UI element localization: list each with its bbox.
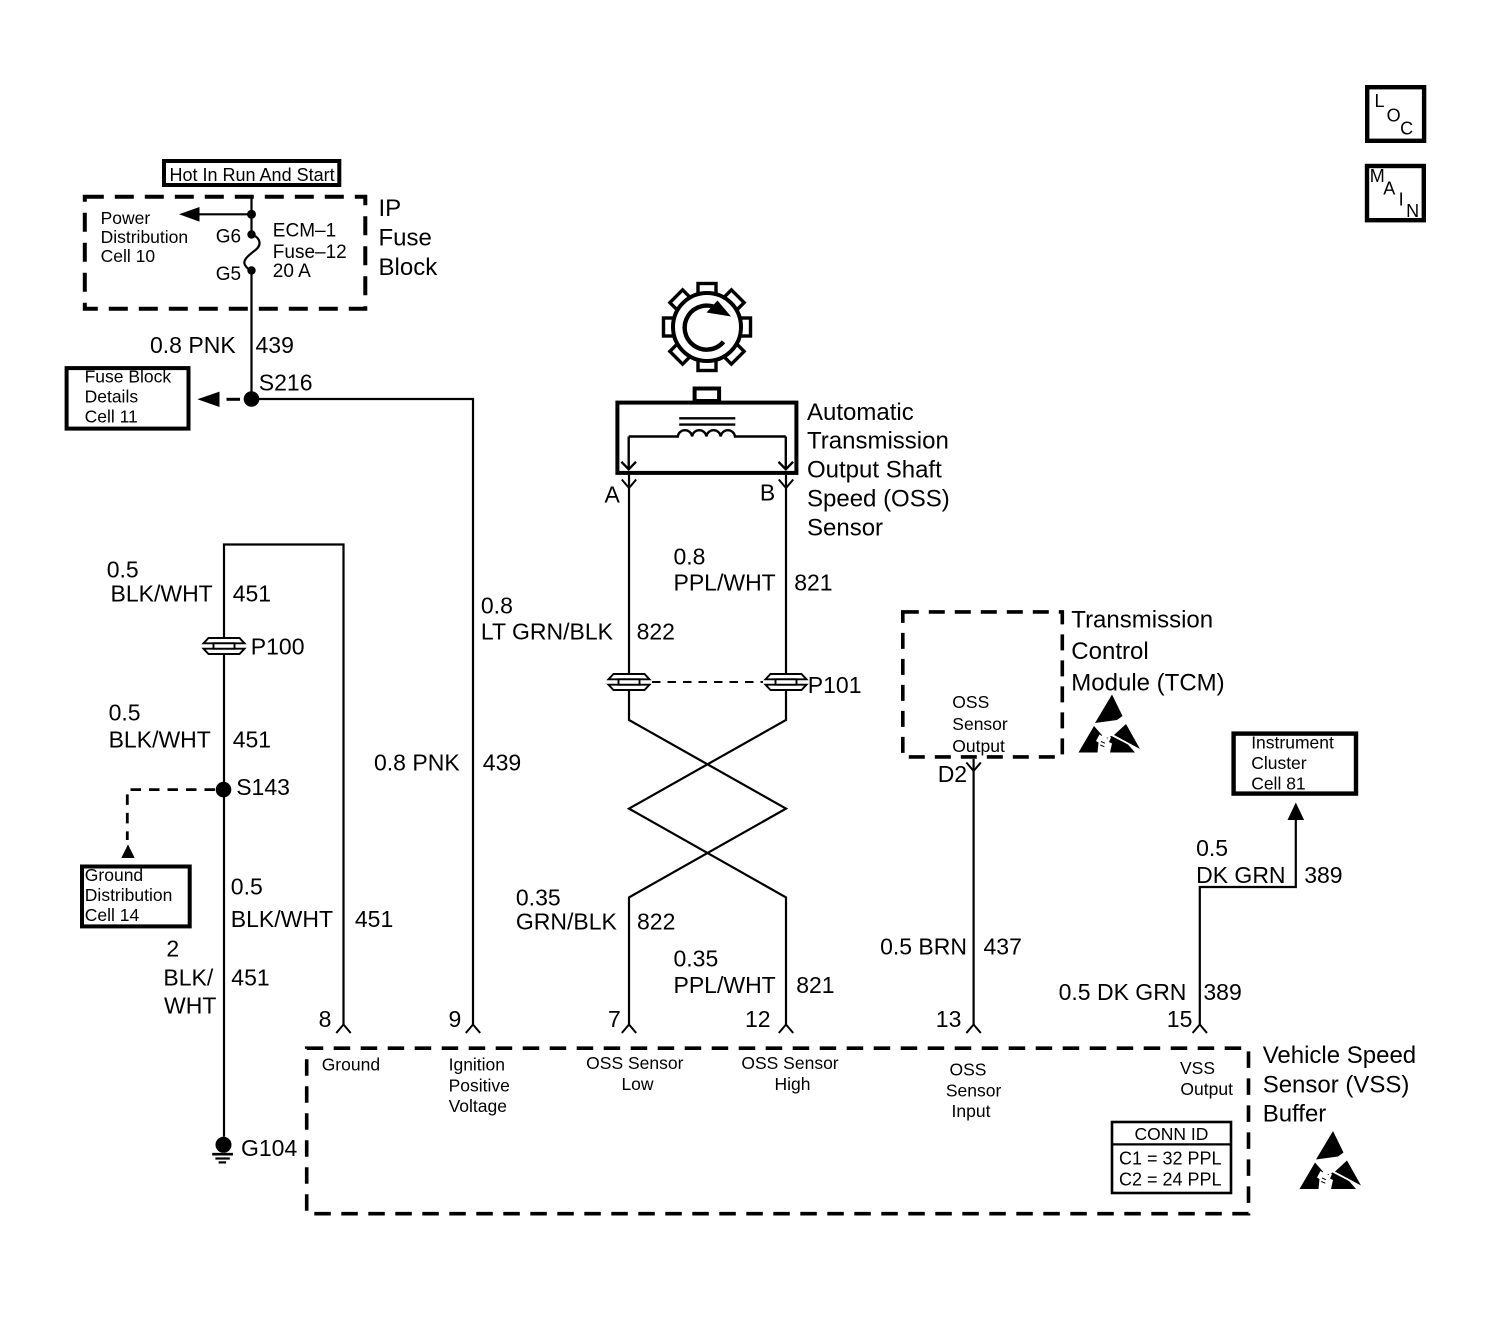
ground G104 symbol [212,1154,233,1162]
svg-text:0.5: 0.5 [1196,835,1228,861]
sensor internal lead A with arrow [621,437,636,470]
label: 0.5 DK GRN 389 (upper) [1196,835,1342,888]
svg-text:0.5: 0.5 [109,700,141,726]
label: 0.35 PPL/WHT 821 [674,946,835,999]
pin 9 chevron [466,1025,480,1034]
OSS sensor box [617,403,796,473]
reference label: Power Distribution Cell 10 [101,208,189,266]
svg-text:Details: Details [85,387,139,407]
svg-text:OSS Sensor: OSS Sensor [741,1053,838,1073]
arrow up into Instrument Cluster [1288,803,1305,821]
dashed link between P101 halves [652,681,763,683]
svg-text:9: 9 [449,1006,462,1032]
svg-text:O: O [1387,106,1401,126]
IP Fuse Block dashed box [85,197,366,309]
svg-text:C1 = 32 PPL: C1 = 32 PPL [1119,1149,1222,1169]
svg-text:Cluster: Cluster [1251,753,1307,773]
twisted pair: wire B P101 to pin 12 (0.35 PPL/WHT 821) [629,690,786,1025]
svg-text:821: 821 [794,570,832,596]
OSS sensor gear icon [664,284,751,371]
svg-text:Distribution: Distribution [101,227,189,247]
svg-text:G104: G104 [241,1135,297,1161]
fuse ECM-1 element [244,235,259,271]
wire: pin 15 up to Instrument Cluster (0.5 DK GRN 389) [1200,818,1296,1025]
reference box: Hot In Run And Start [164,161,339,185]
LOC corner box [1367,87,1424,141]
svg-text:Cell 14: Cell 14 [85,905,140,925]
label: 2 BLK/WHT 451 (to G104) [163,936,269,1019]
svg-text:A: A [1383,179,1395,199]
pin A chevron [622,480,636,489]
OSS sensor mounting stem [695,389,720,402]
svg-text:PPL/WHT: PPL/WHT [674,972,776,998]
pin function label: Ignition Positive Voltage [449,1055,510,1117]
pin 8 chevron [336,1025,350,1034]
svg-text:Voltage: Voltage [449,1096,507,1116]
svg-text:Power: Power [101,208,151,228]
pin function label: OSS Sensor Input [946,1060,1002,1122]
pin 13 chevron [966,1025,980,1034]
svg-text:Output Shaft: Output Shaft [807,457,942,484]
svg-text:C2 = 24 PPL: C2 = 24 PPL [1119,1170,1222,1190]
svg-text:Buffer: Buffer [1263,1101,1327,1128]
svg-text:L: L [1375,91,1385,111]
svg-text:Cell 81: Cell 81 [1251,774,1305,794]
svg-text:Ground: Ground [85,865,143,885]
svg-text:8: 8 [319,1006,332,1032]
label: OSS Sensor Output [952,692,1008,756]
svg-text:0.35: 0.35 [674,946,719,972]
svg-text:0.8 PNK: 0.8 PNK [374,750,460,776]
svg-text:439: 439 [256,332,294,358]
svg-text:Distribution: Distribution [85,885,173,905]
svg-text:BLK/WHT: BLK/WHT [231,906,333,932]
svg-text:BLK/WHT: BLK/WHT [109,727,211,753]
svg-text:7: 7 [608,1006,621,1032]
svg-text:PPL/WHT: PPL/WHT [674,570,776,596]
svg-text:S216: S216 [259,370,313,396]
svg-text:822: 822 [637,909,675,935]
svg-text:821: 821 [796,972,834,998]
svg-text:Low: Low [621,1074,653,1094]
svg-text:DK GRN: DK GRN [1196,862,1285,888]
svg-text:A: A [605,482,621,508]
svg-text:13: 13 [936,1006,962,1032]
svg-text:0.35: 0.35 [516,885,561,911]
svg-text:Ground: Ground [322,1055,380,1075]
svg-text:Cell 11: Cell 11 [85,407,138,427]
svg-text:CONN ID: CONN ID [1135,1124,1209,1144]
svg-text:Ignition: Ignition [449,1055,505,1075]
wire: branch to Power Distribution [199,213,252,215]
svg-text:12: 12 [745,1006,771,1032]
svg-text:439: 439 [483,750,521,776]
svg-text:Fuse: Fuse [379,225,432,252]
svg-text:VSS: VSS [1180,1058,1215,1078]
svg-text:C: C [1400,119,1413,139]
svg-text:451: 451 [231,965,269,991]
svg-text:Instrument: Instrument [1251,733,1334,753]
arrow into Power Distribution [179,207,200,222]
ESD sensitivity symbol (TCM) [1079,695,1141,753]
label: 0.5 BLK/WHT 451 (pin 8 run) [231,874,393,933]
pin 7 chevron [622,1025,636,1034]
svg-text:20 A: 20 A [273,261,311,282]
inline connector P101 (left half) [609,674,650,690]
reference box: Ground Distribution Cell 14 [82,865,190,926]
svg-text:GRN/BLK: GRN/BLK [516,909,618,935]
svg-text:389: 389 [1304,862,1342,888]
svg-text:BLK/: BLK/ [163,965,213,991]
wire: feed from Hot In Run into fuse block [250,197,252,232]
TCM dashed box [903,612,1063,757]
reference box: Fuse Block Details Cell 11 [67,367,189,429]
pin function label: VSS Output [1180,1058,1233,1099]
MAIN corner box [1367,166,1424,221]
wire: ground run pin 8 up over and down to G104 (BLK/WHT 451) [224,545,344,1137]
svg-text:LT GRN/BLK: LT GRN/BLK [481,619,614,645]
svg-text:Positive: Positive [449,1075,510,1095]
fuse ECM-1 terminal G5 [247,266,255,274]
svg-text:D2: D2 [938,761,967,787]
svg-text:0.8: 0.8 [481,593,513,619]
svg-text:ECM–1: ECM–1 [273,221,336,242]
svg-text:Fuse–12: Fuse–12 [273,242,347,263]
svg-text:0.5: 0.5 [107,557,139,583]
sensor internal lead B with arrow [779,437,794,470]
svg-text:Sensor: Sensor [946,1080,1002,1100]
svg-text:B: B [760,480,775,506]
svg-text:S143: S143 [236,774,290,800]
svg-text:Sensor (VSS): Sensor (VSS) [1263,1072,1410,1099]
VSS buffer dashed box [307,1048,1249,1214]
svg-text:15: 15 [1167,1006,1193,1032]
wire: S216 right then down to pin 9 (0.8 PNK 439) [252,399,474,1025]
svg-text:0.5 DK GRN: 0.5 DK GRN [1059,979,1187,1005]
wire B: sensor pin B to P101 (0.8 PPL/WHT 821) [785,475,787,674]
svg-text:Module (TCM): Module (TCM) [1071,669,1224,696]
svg-text:Output: Output [1180,1079,1233,1099]
CONN ID table box [1112,1122,1231,1193]
svg-text:OSS: OSS [950,1060,987,1080]
label: 0.5 BLK/WHT 451 (below P100) [109,700,271,753]
svg-text:0.8: 0.8 [674,544,706,570]
label: 0.5 DK GRN 389 (lower) [1059,979,1242,1005]
wire: D2 to pin 13 (0.5 BRN 437) [972,759,974,1025]
label: 0.8 PPL/WHT 821 [674,544,833,596]
label: Vehicle Speed Sensor (VSS) Buffer [1263,1042,1416,1128]
svg-text:OSS Sensor: OSS Sensor [586,1053,683,1073]
svg-text:WHT: WHT [164,993,216,1019]
svg-text:451: 451 [233,727,271,753]
ground G104 terminal dot [216,1137,232,1153]
pin B chevron [779,480,793,489]
label: 0.35 GRN/BLK 822 [516,885,675,935]
svg-text:Cell 10: Cell 10 [101,246,156,266]
fuse ECM-1 terminal G6 [247,230,255,238]
splice S143 [216,782,232,798]
svg-text:Input: Input [952,1101,991,1121]
svg-text:451: 451 [355,906,393,932]
svg-text:P100: P100 [251,634,305,660]
svg-text:I: I [1399,190,1404,210]
svg-text:BLK/WHT: BLK/WHT [111,581,213,607]
pin 15 chevron [1193,1025,1207,1034]
wire A: sensor pin A to P101 (0.8 LT GRN/BLK 822) [628,475,630,674]
svg-text:G5: G5 [216,264,241,285]
label: ECM-1 Fuse-12 20 A [273,221,347,282]
svg-text:2: 2 [166,936,179,962]
svg-text:Sensor: Sensor [807,515,883,542]
pin 12 chevron [779,1025,793,1034]
inline connector P100 [204,638,245,654]
sensor pickup coil [629,430,786,436]
svg-text:OSS: OSS [952,692,989,712]
junction dot above fuse [247,210,256,219]
svg-text:Sensor: Sensor [952,714,1008,734]
twisted pair: wire A P101 to pin 7 (0.35 GRN/BLK 822) [629,690,786,1025]
label: IP Fuse Block [379,195,439,281]
reference box: Instrument Cluster Cell 81 [1234,733,1356,794]
svg-text:822: 822 [637,619,675,645]
label: Transmission Control Module (TCM) [1071,607,1224,697]
dashed reference line S143 to Ground Distribution [127,790,215,840]
svg-text:389: 389 [1203,979,1241,1005]
wire: 0.8 PNK 439 fuse output down to S216 [250,271,252,400]
svg-text:Vehicle Speed: Vehicle Speed [1263,1042,1416,1069]
label: 0.8 LT GRN/BLK 822 [481,593,675,645]
svg-text:G6: G6 [216,226,241,247]
inline connector P101 (right half) [766,674,807,690]
label: 0.5 BLK/WHT 451 (above P100) [107,557,271,607]
svg-text:0.5: 0.5 [231,874,263,900]
ESD sensitivity symbol (VSS buffer) [1300,1131,1362,1189]
svg-text:P101: P101 [808,672,862,698]
svg-text:N: N [1406,201,1419,221]
svg-text:Transmission: Transmission [1071,607,1213,634]
svg-text:Hot In Run And Start: Hot In Run And Start [170,165,335,185]
svg-text:Transmission: Transmission [807,428,949,455]
pin function label: OSS Sensor High [741,1053,838,1094]
svg-text:Output: Output [952,736,1005,756]
sensor core lines [679,418,735,424]
pin D2 chevron [966,763,980,772]
svg-text:IP: IP [379,195,402,222]
svg-text:Speed (OSS): Speed (OSS) [807,485,950,512]
splice S216 [244,391,260,407]
pin function label: OSS Sensor Low [586,1053,683,1094]
svg-text:High: High [775,1074,811,1094]
svg-text:451: 451 [233,581,271,607]
svg-text:Control: Control [1071,638,1148,665]
svg-text:Block: Block [379,254,439,281]
svg-text:0.8 PNK: 0.8 PNK [150,332,236,358]
svg-text:0.5 BRN: 0.5 BRN [880,934,967,960]
label: Automatic Transmission Output Shaft Speed (OSS) Sensor [807,399,950,542]
dashed arrow to Fuse Block Details [197,392,240,407]
svg-text:Automatic: Automatic [807,399,914,426]
svg-text:437: 437 [984,934,1022,960]
svg-text:Fuse Block: Fuse Block [85,367,172,387]
arrow (up) above Ground Distribution box [121,845,134,859]
